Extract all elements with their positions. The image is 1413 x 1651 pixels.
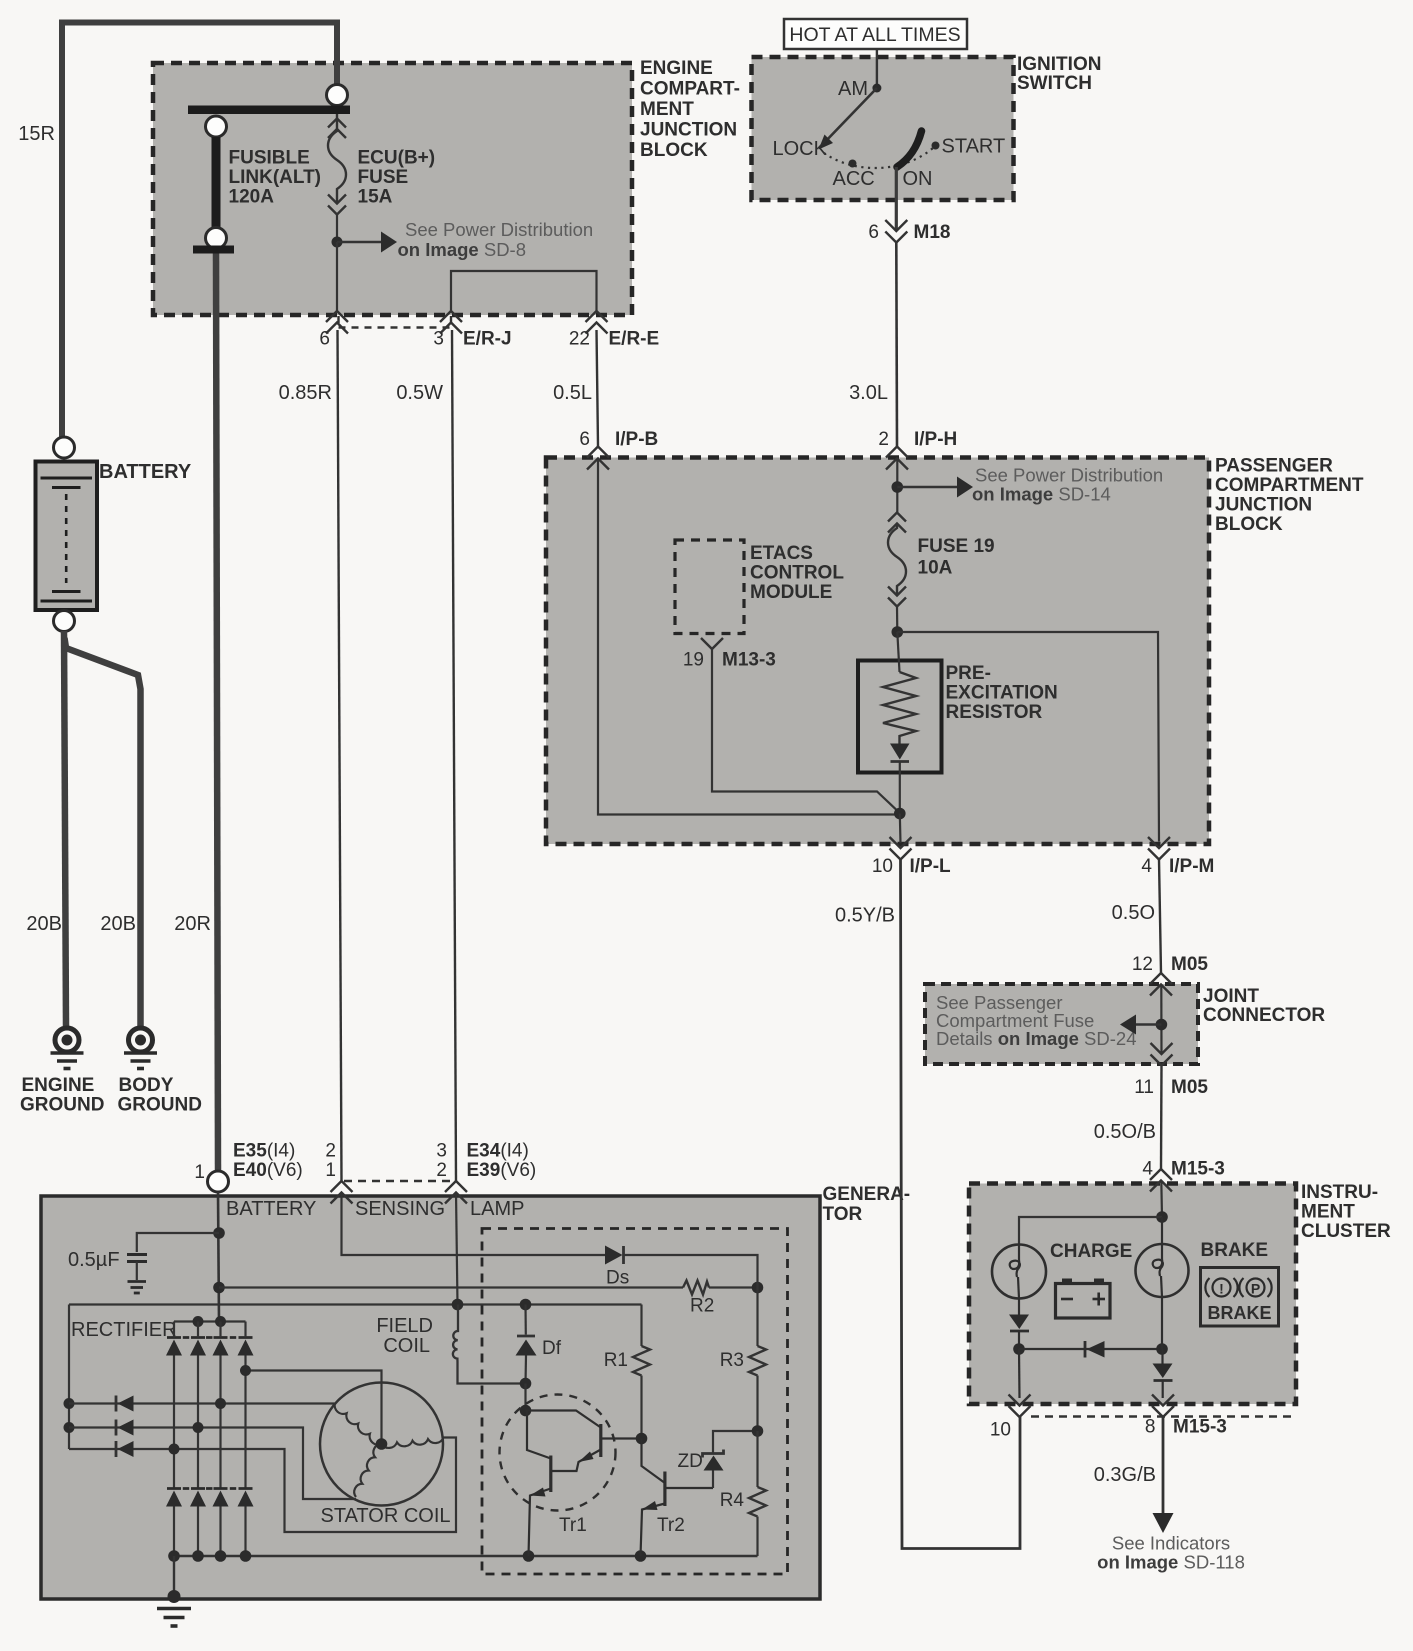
node dot R1 bottom Tr1 base [636,1433,648,1445]
svg-text:CHARGE: CHARGE [1050,1241,1132,1262]
svg-text:ON: ON [903,168,933,190]
connector pin 12 chevrons M05 [1150,973,1172,996]
brake warning icon box [1201,1268,1279,1327]
node dots on ground bus [168,1550,646,1562]
ignition switch AM label [838,78,868,100]
connector pin 10 chevrons I/P-L [890,837,912,860]
node circle at bus bar top [327,85,348,106]
wire 3.0L ignition to I/P-H [895,243,898,447]
svg-text:0.5µF: 0.5µF [68,1249,120,1271]
connector pin 4 chevrons M15-3 [1150,1169,1172,1192]
svg-text:See Indicators: See Indicators [1112,1533,1230,1554]
generator box [41,1196,820,1599]
wire ground bus [174,1555,758,1557]
svg-text:6: 6 [868,222,879,243]
connector pin 3 label and name E/R-J [433,329,511,350]
wire Df anode to Tr1 collectors [524,1384,526,1411]
transistor Tr2 [641,1439,714,1557]
svg-text:M13-3: M13-3 [722,650,776,671]
connector pin 19 label and name M13-3 [683,650,776,671]
node dot phase A on column 3 [215,1398,226,1409]
wire 0.3G/B with end arrow [1153,1417,1174,1533]
svg-text:LOCK: LOCK [773,138,828,160]
connector pin 19 chevron M13-3 [701,638,723,649]
see power distribution SD-14 arrow [897,477,973,498]
svg-text:ZD: ZD [678,1451,703,1472]
fusible link FL(ALT) 120A element bar [212,137,221,227]
body ground ring terminal [129,1028,153,1052]
pre-excitation resistor element zigzag and arrow [883,632,916,813]
svg-text:I/P-H: I/P-H [914,429,957,450]
wire from ON terminal down to M18 [895,167,898,231]
wire label 0.3G/B [1094,1464,1156,1486]
ETACS control module label [750,543,844,603]
resistor R2 zigzag [683,1281,709,1295]
wire inside joint connector [1160,985,1162,1055]
wire label 0.5Y/B [835,905,895,927]
svg-text:E35(I4): E35(I4) [233,1141,295,1162]
node junction dot I/P-H [892,481,904,493]
node dot field coil bottom to Df anode [520,1378,532,1390]
connector pin 3 chevrons E/R-J [440,311,462,334]
field coil label FIELD COIL [376,1315,433,1357]
diode label Ds [606,1268,629,1289]
ignition switch label [1017,54,1101,94]
body ground label [118,1075,202,1116]
svg-text:on Image SD-8: on Image SD-8 [398,239,527,260]
svg-text:STATOR COIL: STATOR COIL [321,1505,451,1527]
fuse value label ECU(B+) FUSE 15A [358,148,436,208]
diode trio (3 diodes pointing left) [116,1396,134,1458]
engine ground label [20,1075,104,1116]
svg-text:0.5Y/B: 0.5Y/B [835,905,895,927]
transistor Tr1 second stage (lower left) [527,1411,551,1557]
svg-text:RECTIFIER: RECTIFIER [71,1319,177,1341]
svg-text:E/R-E: E/R-E [609,329,660,350]
lamp BRAKE indicator [1136,1217,1189,1297]
wire from fuse junction to I/P-M column [897,632,1159,842]
node START dot [932,142,940,150]
svg-text:M15-3: M15-3 [1173,1417,1227,1438]
battery label BATTERY [99,461,192,483]
ETACS control module dashed box [675,540,744,634]
resistor label R3 [720,1350,744,1371]
svg-text:R2: R2 [690,1296,714,1317]
fusible link bottom terminal circle [206,228,227,249]
wire rectifier top bus [174,1320,246,1322]
fuse value label FUSE 19 10A [918,536,995,579]
wire from M13-3 to pre-excitation output node [712,649,900,813]
svg-text:START: START [942,136,1006,158]
stator coil circle [320,1383,443,1506]
wire 0.85R from pin 6 to generator sensing [338,330,342,1181]
ignition switch wiper arm AM to LOCK with arrowhead [819,88,877,150]
connector pin 8 label and name M15-3 [1145,1417,1227,1438]
engine ground symbol bars [51,1053,84,1069]
svg-text:IGNITIONSWITCH: IGNITIONSWITCH [1017,54,1101,94]
wire charge node to pin 10 exit [1018,1349,1021,1398]
svg-text:0.5O/B: 0.5O/B [1094,1121,1156,1143]
svg-text:Tr2: Tr2 [657,1515,685,1536]
fusible link FL(ALT) 120A top terminal circle [206,116,227,137]
svg-text:Ds: Ds [606,1268,629,1289]
svg-text:10: 10 [872,856,893,877]
svg-text:I/P-B: I/P-B [615,429,658,450]
connector pin 8 chevrons M15-3 [1152,1395,1174,1418]
transistor label Tr1 [559,1515,587,1536]
wire neutral line from column 4 to stator center [246,1371,382,1445]
wire label 0.5W [396,382,443,404]
svg-text:0.5O: 0.5O [1112,902,1155,924]
svg-text:20B: 20B [26,913,62,935]
joint connector box [925,984,1198,1064]
node junction dot pre-excitation output [894,808,906,820]
generator connector label E35(I4) E40(V6) [233,1141,303,1182]
lamp label BRAKE [1201,1240,1269,1261]
passenger compartment junction block label [1215,456,1364,536]
connector pin 6 chevrons M18 [885,220,907,243]
svg-text:See Power Distribution: See Power Distribution [405,219,593,240]
node AM terminal dot [872,84,881,93]
connector pin 2 chevrons I/P-H [886,447,908,470]
svg-text:0.5L: 0.5L [553,382,592,404]
svg-text:LAMP: LAMP [470,1198,524,1220]
connector pin 10 chevrons cluster bottom [1009,1395,1031,1418]
wire label 20B body [100,913,136,935]
wire label 15R [18,123,55,145]
stator coil winding arm upper-left [335,1403,382,1445]
svg-text:19: 19 [683,650,704,671]
wire from hot-at-all-times to AM terminal [876,49,878,88]
connector pin 4 label and name M15-3 [1142,1159,1224,1180]
wire label 0.5O [1112,902,1155,924]
node dot phase B on column 2 [193,1422,204,1433]
stator coil winding arm right [382,1438,444,1448]
diode D1 below charge lamp [1009,1299,1029,1350]
connector pin 12 label and name M05 [1132,954,1209,975]
wire phase A line [69,1402,335,1404]
svg-text:M18: M18 [914,222,951,243]
svg-text:12: 12 [1132,954,1153,975]
resistor R4 [749,1431,766,1556]
wire 20B branch to body ground [65,638,141,1027]
svg-text:BRAKE: BRAKE [1201,1240,1269,1261]
fuse 19 10A symbol [888,513,906,633]
lamp label CHARGE [1050,1241,1132,1262]
wire junction to charge lamp [1019,1217,1162,1245]
node junction dot B+ to R2 line [213,1282,225,1294]
resistor label R2 [690,1296,714,1317]
diode D3 below brake lamp [1153,1297,1173,1398]
connector pin 4 label and name I/P-M [1141,856,1214,877]
node junction dot field bus at lamp/field coil [452,1299,464,1311]
svg-text:M05: M05 [1171,954,1208,975]
svg-text:See Power Distribution: See Power Distribution [975,465,1163,486]
passenger compartment junction block box [546,458,1209,845]
engine compartment junction block label [640,58,740,161]
wire 0.5Y/B long run to instrument cluster pin 10 [901,860,1021,1549]
wire main field bus [69,1303,642,1305]
svg-text:ENGINEGROUND: ENGINEGROUND [20,1075,104,1116]
svg-text:4: 4 [1142,1159,1153,1180]
generator connector label E34(I4) E39(V6) [467,1141,537,1182]
svg-text:8: 8 [1145,1417,1156,1438]
capacitor C1 0.5uF plates [127,1255,147,1262]
node dot neutral on column 4 [240,1365,251,1376]
svg-text:Tr1: Tr1 [559,1515,587,1536]
svg-text:0.3G/B: 0.3G/B [1094,1464,1156,1486]
svg-text:HOT AT ALL TIMES: HOT AT ALL TIMES [789,24,960,46]
voltage regulator dashed box [482,1229,788,1575]
svg-text:E40(V6): E40(V6) [233,1160,303,1181]
generator lamp pin labels 3 2 [436,1141,447,1182]
stator coil winding arm lower-left [354,1444,381,1497]
wire label 0.85R [279,382,332,404]
svg-text:Details on Image SD-24: Details on Image SD-24 [936,1028,1137,1049]
node dot Tr1 collector junction [520,1405,532,1417]
connector pin 6 chevrons I/P-B [587,447,609,470]
see indicators SD-118 note [1097,1533,1245,1573]
resistor label R1 [604,1350,628,1371]
diode Df flyback [516,1305,537,1384]
svg-text:I/P-M: I/P-M [1169,856,1214,877]
svg-text:6: 6 [579,429,590,450]
brake warning box label BRAKE [1207,1303,1271,1323]
svg-text:I/P-L: I/P-L [910,856,952,877]
generator lamp terminal chevrons [445,1181,467,1204]
generator sensing terminal chevrons [331,1181,353,1204]
wire inside block from fuse to pin 6 [336,242,338,311]
connector bracket dashed between sensing and lamp [344,1180,454,1183]
pre-excitation resistor label [946,663,1058,723]
svg-text:15R: 15R [18,123,55,145]
wire label 20R [174,913,211,935]
wire sensing to Ds line [342,1193,606,1256]
wire 0.5O to joint connector [1159,860,1161,974]
svg-text:R4: R4 [720,1490,745,1511]
wire label 3.0L [849,382,888,404]
node junction dot cluster top [1156,1211,1168,1223]
battery BT1 plate symbols [41,478,93,601]
svg-text:E34(I4): E34(I4) [467,1141,529,1162]
battery bottom terminal circle [54,611,75,632]
svg-text:0.85R: 0.85R [279,382,332,404]
transistor label Tr2 [657,1515,685,1536]
wire label 0.5O/B [1094,1121,1156,1143]
generator battery terminal circle pin 1 [208,1171,229,1192]
svg-text:R3: R3 [720,1350,744,1371]
wire I/P-H into block [896,459,898,513]
capacitor value label 0.5uF [68,1249,120,1271]
node junction dot in joint connector [1156,1019,1168,1031]
resistor R3 [749,1346,766,1431]
svg-text:on Image SD-118: on Image SD-118 [1097,1552,1245,1573]
wire label 0.5L [553,382,592,404]
fusible link bottom bar [193,246,234,254]
svg-text:20R: 20R [174,913,211,935]
fuse F1 ECU(B+) 15A symbol [328,114,346,237]
wire 15R battery-positive to junction block [62,23,337,441]
inductor field coil symbol [453,1305,526,1384]
brake warning icon (!) [1205,1278,1237,1297]
ignition switch LOCK label [773,138,828,160]
resistor R1 [633,1305,650,1439]
diode label Df [542,1338,562,1359]
ignition switch ON label [903,168,933,190]
node stator neutral center dot [376,1438,388,1450]
connector pin 10 label [990,1420,1011,1441]
engine ground ring terminal [55,1028,79,1052]
battery BT1 top terminal circle [54,437,75,458]
wire label 20B engine [26,913,62,935]
transistor Tr1 first stage (upper right) [526,1411,642,1472]
ignition switch dotted detent arc [824,147,934,168]
svg-text:on Image SD-14: on Image SD-14 [972,484,1111,505]
battery BT1 body [36,462,98,611]
stator coil label STATOR COIL [321,1505,451,1527]
connector pin 4 chevrons I/P-M [1148,837,1170,860]
fusible link value label FUSIBLE LINK(ALT) 120A [229,148,322,208]
connector pin 11 chevrons M05 [1151,1043,1173,1066]
svg-text:SENSING: SENSING [355,1198,445,1220]
brake warning icon (P) [1239,1278,1271,1297]
svg-text:22: 22 [569,329,590,350]
connector pin 2 label and name I/P-H [878,429,957,450]
svg-text:0.5W: 0.5W [396,382,443,404]
svg-text:ACC: ACC [833,168,875,190]
svg-text:E39(V6): E39(V6) [467,1160,537,1181]
generator sensing pin labels 2 1 [325,1141,336,1182]
wire phase B line [69,1428,356,1500]
ignition switch START label [942,136,1006,158]
connector pin 10 label and name I/P-L [872,856,951,877]
transistor Tr1 darlington dashed circle [500,1395,616,1511]
connector pin 22 label and name E/R-E [569,329,659,350]
svg-text:20B: 20B [100,913,136,935]
svg-text:3: 3 [433,329,444,350]
hot at all times box [784,19,967,49]
ground stem and main ground symbol [157,1556,191,1626]
ignition switch ACC label [833,168,875,190]
wire 0.5W from pin 3 to generator lamp [452,330,456,1181]
svg-text:2: 2 [878,429,889,450]
wire 20B battery negative to engine ground [64,631,66,1027]
svg-text:10: 10 [990,1420,1011,1441]
joint connector label [1203,986,1325,1026]
generator terminal label BATTERY [226,1198,316,1220]
svg-text:11: 11 [1134,1077,1154,1098]
lamp CHARGE indicator [992,1245,1046,1299]
node dot R3 bottom [752,1425,764,1437]
rectifier label RECTIFIER [71,1319,177,1341]
wire 0.5O/B joint connector to cluster [1160,1066,1163,1170]
wire 0.5L from pin 22 to I/P-B [597,330,599,446]
svg-text:3.0L: 3.0L [849,382,888,404]
svg-text:COIL: COIL [383,1335,430,1357]
wire battery terminal to B+ node [218,1192,219,1322]
node junction dot below brake lamp [1156,1343,1168,1355]
bus bar (thick) in engine junction block [188,106,350,115]
diode Ds [605,1246,624,1265]
instrument cluster label [1301,1182,1391,1242]
node junction dot field bus at Df [520,1299,532,1311]
battery icon in cluster [1056,1279,1111,1319]
instrument cluster box [969,1184,1296,1405]
capacitor C1 0.5uF branch wire [137,1233,219,1252]
connector pin 6 chevrons at engine block bottom [326,311,348,334]
connector pin 6 label and name M18 [868,222,950,243]
svg-text:AM: AM [838,78,868,100]
svg-text:M15-3: M15-3 [1171,1159,1225,1180]
generator label [823,1184,911,1225]
svg-text:6: 6 [319,329,330,350]
wire to I/P-L exit [899,814,902,844]
connector bracket dashed between pins 6 and 3 [339,316,452,328]
svg-text:BATTERY: BATTERY [99,461,192,483]
wire 20R fusible link to generator battery terminal [216,254,218,1172]
wire diode trio feed vertical [68,1305,70,1450]
rectifier bottom diode cathode bar (dashed line) [167,1487,253,1490]
body ground symbol bars [124,1053,157,1069]
wire M15-3 into cluster to junction [1160,1181,1163,1218]
see power distribution SD-8 arrow [337,232,397,253]
zener label ZD [678,1451,703,1472]
svg-text:4: 4 [1141,856,1152,877]
node dots on trio vertical [64,1398,75,1433]
connector pin 22 chevrons E/R-E [586,311,608,334]
see power distribution SD-8 note [398,219,594,260]
svg-text:!: ! [1219,1281,1224,1297]
ignition switch ON thick contact arc [897,131,922,167]
connector pin 11 label and name M05 [1134,1077,1208,1098]
wire from I/P-B down and right to output node [598,459,900,815]
zener diode ZD [703,1431,758,1488]
ground symbol below capacitor [128,1262,147,1294]
ignition switch box [752,57,1014,200]
node ACC dot [849,160,857,168]
svg-text:E/R-J: E/R-J [463,329,512,350]
node junction dot below fuse 19 [892,626,904,638]
wire Ds to right column corner [624,1255,758,1288]
node junction dot R2 right [752,1282,764,1294]
node junction dot below fuse [332,237,343,248]
resistor label R4 [720,1490,745,1511]
joint connector note text [936,992,1137,1049]
svg-text:P: P [1251,1281,1260,1297]
node dot phase C on column 1 [169,1444,180,1455]
generator terminal label SENSING [355,1198,445,1220]
svg-text:BATTERY: BATTERY [226,1198,316,1220]
svg-text:2: 2 [325,1141,336,1162]
wire phase C line [69,1438,456,1533]
pre-excitation resistor box [858,661,942,773]
engine compartment junction block box [153,63,632,315]
rectifier top diodes (4) [166,1322,254,1489]
joint connector left arrow [1120,1015,1161,1035]
wire lamp terminal down to field bus [456,1193,458,1305]
wire R2 line from B+ to right column [219,1286,758,1288]
rectifier bottom diodes (4) [166,1491,254,1557]
svg-text:M05: M05 [1171,1077,1208,1098]
see power distribution SD-14 note [972,465,1163,505]
svg-text:R1: R1 [604,1350,628,1371]
svg-text:Df: Df [542,1338,562,1359]
node junction dot below charge diode [1013,1343,1025,1355]
node B+ junction dot [213,1227,225,1239]
connector bracket dashed below cluster [1031,1415,1293,1418]
svg-text:FIELD: FIELD [376,1315,433,1337]
wire bus connecting pins 3 and 22 inside block [451,271,597,311]
